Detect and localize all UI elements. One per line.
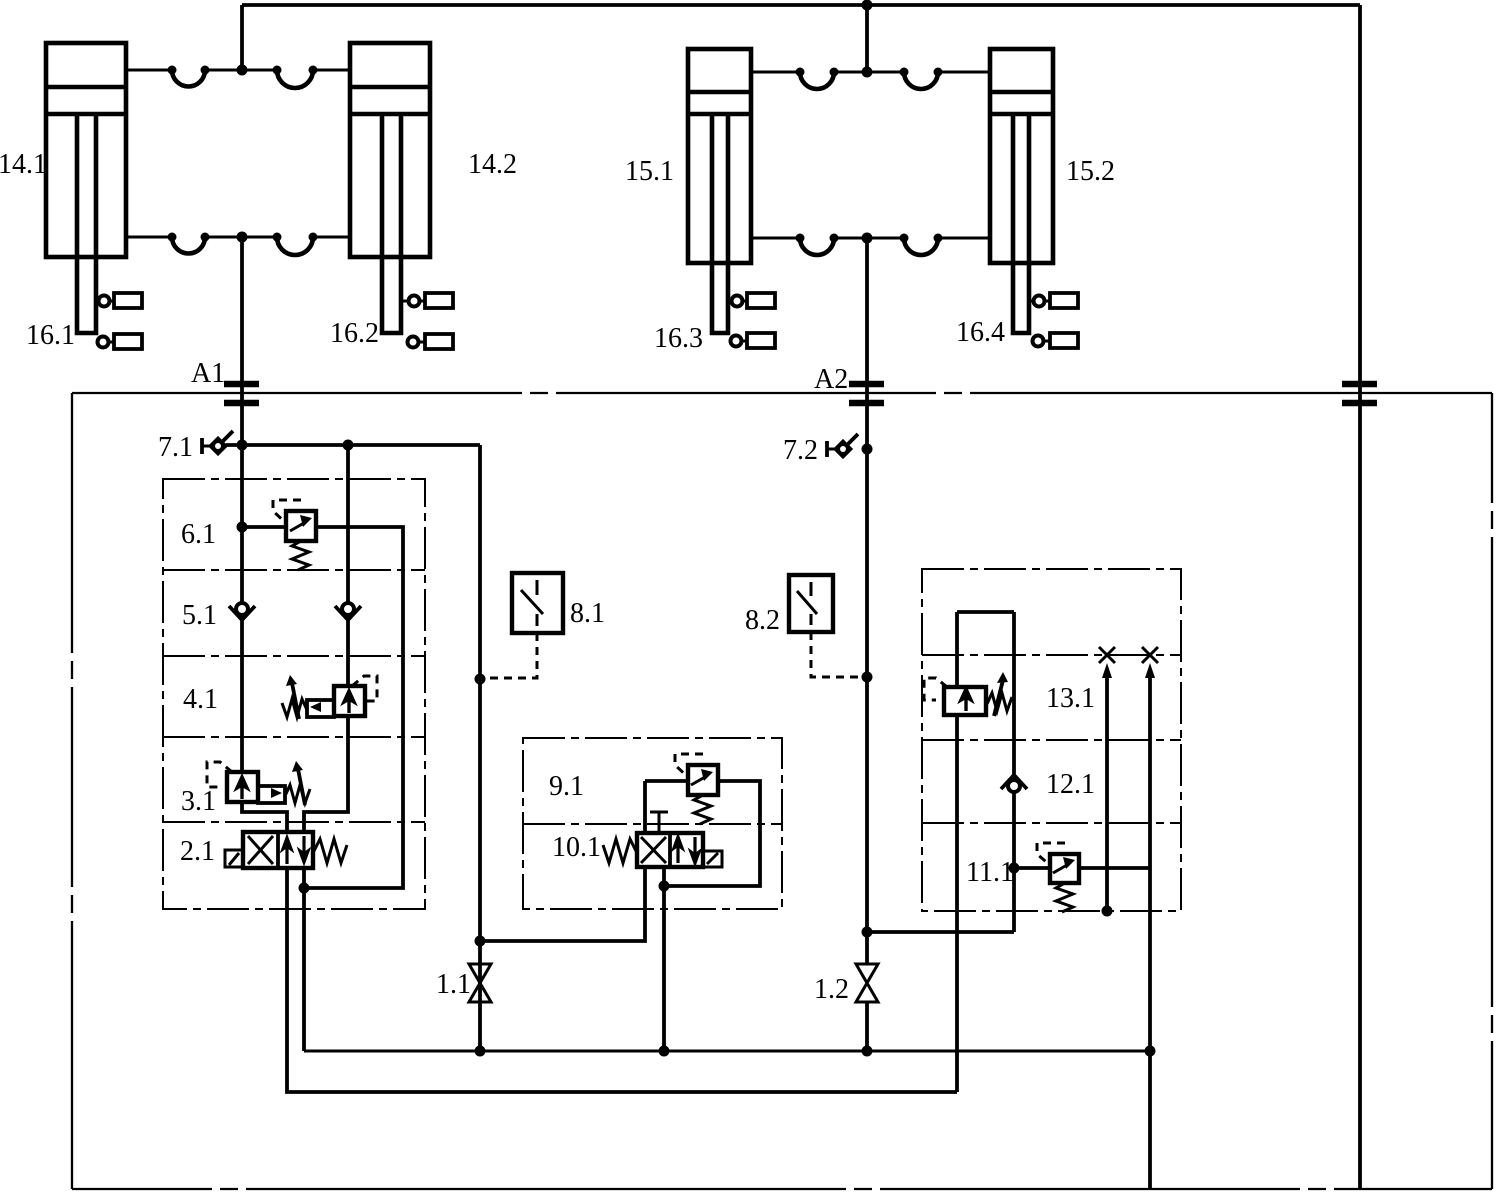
wire 13.1 loop top (957, 610, 1014, 614)
wire 9.1 to 10.1 (643, 781, 647, 833)
pilot line 8.1 (484, 633, 537, 678)
wire A1 riser (240, 237, 244, 772)
wire 2.1 port B down (302, 868, 306, 1051)
wire riser group2 (865, 5, 869, 72)
pipe group2 bottom (751, 237, 990, 240)
junction 10.1 loop (659, 881, 670, 892)
hose group1 top right (273, 66, 318, 89)
wire 10.1 drain (480, 867, 645, 941)
junction 11.1 inlet (1009, 863, 1020, 874)
junction 2.1 bypass (299, 883, 310, 894)
svg-text:8.1: 8.1 (570, 598, 605, 629)
svg-text:10.1: 10.1 (552, 832, 601, 863)
sensor 16.4 upper (1029, 293, 1078, 308)
reducing valve 13.1 (924, 672, 1012, 716)
wire 7.1 header drop (478, 445, 482, 1051)
cylinder 14.2 (350, 43, 430, 257)
svg-text:3.1: 3.1 (181, 786, 216, 817)
wire branch 348 riser (346, 445, 350, 686)
test coupling 7.2 (827, 434, 858, 457)
junction X2 tank (1145, 1046, 1156, 1057)
svg-text:4.1: 4.1 (183, 684, 218, 715)
junction 1.1 top tee (475, 936, 486, 947)
hose group1 bottom right (273, 233, 318, 256)
wire 9.1 inlet (645, 779, 688, 783)
relief valve 6.1 (273, 500, 316, 570)
piston rod 14.1 (77, 116, 96, 333)
port right connector (1342, 384, 1377, 403)
wire top manifold (242, 3, 1360, 7)
sensor 16.3 upper (728, 293, 775, 308)
shutoff valve 1.2 (856, 964, 878, 1002)
svg-text:A1: A1 (191, 358, 225, 389)
relief valve 11.1 (1014, 843, 1150, 912)
sensor 16.1 upper (96, 293, 142, 308)
hose group2 bottom left (796, 234, 839, 256)
reducing valve 3.1 (207, 761, 310, 805)
svg-text:9.1: 9.1 (549, 771, 584, 802)
relief valve 9.1 (675, 754, 718, 824)
enclosure power unit box (72, 392, 1492, 394)
port A2 connector (849, 384, 884, 403)
svg-text:11.1: 11.1 (966, 857, 1014, 888)
wire 10.1 port down (662, 867, 666, 1051)
junction 12.1 branch (862, 927, 873, 938)
wire 1.2 bottom (865, 1002, 869, 1051)
wire riser group1 (240, 5, 244, 70)
wire pilot header 6.1 row (226, 443, 480, 447)
directional valve 10.1 (603, 812, 722, 867)
svg-text:8.2: 8.2 (745, 605, 780, 636)
check valve 5.1a (229, 603, 255, 620)
junction 8.2 tap (862, 672, 873, 683)
svg-text:7.2: 7.2 (783, 435, 818, 466)
svg-text:14.1: 14.1 (0, 149, 47, 180)
pipe group2 top (751, 71, 990, 74)
wire relief 6.1 line (242, 527, 403, 888)
check valve 12.1 (1001, 775, 1027, 792)
svg-text:16.2: 16.2 (330, 318, 379, 349)
pilot line 8.2 (811, 632, 863, 677)
wire right supply line (1358, 5, 1362, 1189)
junction header/branch (343, 440, 354, 451)
sensor 16.2 lower (408, 334, 454, 349)
svg-text:16.4: 16.4 (956, 317, 1005, 348)
hose group2 top left (796, 68, 839, 90)
sensor 16.3 lower (731, 333, 776, 348)
cylinder 15.2 (990, 49, 1053, 263)
wire A2 riser (865, 238, 869, 964)
check valve 5.1b (335, 603, 361, 620)
piston rod 15.1 (712, 116, 728, 333)
cylinder 15.1 (688, 49, 751, 263)
manifold block A outline (163, 479, 425, 909)
piston rod 14.2 (382, 116, 401, 333)
wire 13.1 riser (955, 612, 959, 1092)
pipe group1 bottom (126, 236, 350, 239)
test point X1 (1099, 647, 1115, 912)
sensor 16.2 upper (401, 293, 453, 308)
sensor 16.1 lower (98, 334, 143, 349)
cylinder 14.1 (46, 43, 126, 257)
svg-text:A2: A2 (814, 364, 848, 395)
junction 7.1/A1 (237, 440, 248, 451)
junction 1.2 tank (862, 1046, 873, 1057)
wire 9.1 outlet loop (664, 781, 760, 886)
hose group2 top right (900, 68, 943, 90)
junction 8.1 tap (475, 674, 486, 685)
junction group2 top (862, 67, 873, 78)
svg-text:5.1: 5.1 (182, 600, 217, 631)
svg-text:14.2: 14.2 (468, 149, 517, 180)
junction 6.1 inlet (237, 522, 248, 533)
wire tank header (304, 1050, 1150, 1053)
svg-text:7.1: 7.1 (158, 432, 193, 463)
directional valve 2.1 (225, 832, 347, 868)
svg-text:12.1: 12.1 (1046, 769, 1095, 800)
manifold block B outline (523, 738, 782, 909)
junction 1.1 bottom (475, 1046, 486, 1057)
junction group2 bottom (862, 233, 873, 244)
shutoff valve 1.1 (469, 964, 491, 1002)
svg-text:2.1: 2.1 (180, 836, 215, 867)
test point X2 (1142, 647, 1158, 1189)
reducing valve 4.1 (282, 675, 377, 719)
wire 2.1 drain A (287, 868, 957, 1092)
junction 7.2/A2 (862, 444, 873, 455)
junction X1 bottom (1102, 906, 1113, 917)
junction top manifold (862, 0, 873, 11)
svg-text:13.1: 13.1 (1046, 683, 1095, 714)
wire 12.1 riser (1012, 612, 1016, 932)
svg-text:1.1: 1.1 (436, 969, 471, 1000)
test coupling 7.1 (202, 431, 233, 454)
svg-text:15.1: 15.1 (625, 156, 674, 187)
junction group1 top (237, 65, 248, 76)
wire 3.1 to 2.1 (242, 802, 287, 832)
svg-text:15.2: 15.2 (1066, 156, 1115, 187)
port A1 connector (224, 384, 259, 403)
svg-text:6.1: 6.1 (181, 519, 216, 550)
pipe group1 top (126, 69, 350, 72)
wire 12.1 branch (867, 930, 1014, 934)
pressure switch 8.1 (512, 573, 563, 633)
sensor 16.4 lower (1033, 333, 1079, 348)
junction 10.1 tank (659, 1046, 670, 1057)
svg-text:16.3: 16.3 (654, 323, 703, 354)
svg-text:1.2: 1.2 (814, 974, 849, 1005)
hose group1 bottom left (168, 233, 210, 254)
piston rod 15.2 (1013, 116, 1029, 333)
manifold block C outline (922, 569, 1181, 911)
junction group1 bottom (237, 232, 248, 243)
wire 4.1 to 2.1 (304, 716, 348, 832)
svg-text:16.1: 16.1 (26, 320, 75, 351)
pressure switch 8.2 (789, 575, 833, 632)
hose group2 bottom right (900, 234, 943, 256)
hose group1 top left (168, 66, 210, 87)
